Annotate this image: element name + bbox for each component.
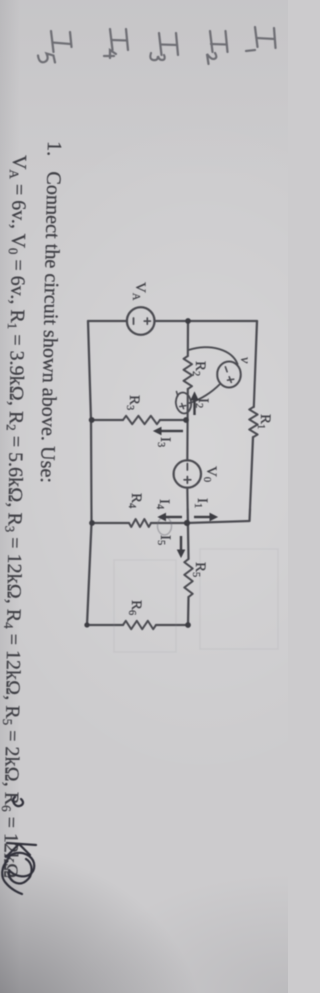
svg-text:VA = 6v., V0 = 6v., R1 = 3.9kΩ: VA = 6v., V0 = 6v., R1 = 3.9kΩ, R2 = 5.6… <box>0 155 30 879</box>
svg-text:R3: R3 <box>124 395 142 410</box>
svg-text:I1: I1 <box>192 498 210 508</box>
svg-text:VA: VA <box>130 282 148 301</box>
svg-text:I2: I2 <box>193 398 211 408</box>
svg-text:R5: R5 <box>190 562 208 577</box>
svg-text:1. Connect the circuit shown: 1. Connect the circuit shown above. Use: <box>36 141 65 483</box>
svg-text:R1: R1 <box>255 414 273 429</box>
svg-text:I5: I5 <box>155 535 173 545</box>
svg-text:R4: R4 <box>126 493 144 509</box>
svg-text:v: v <box>237 357 252 364</box>
svg-text:I3: I3 <box>155 437 173 447</box>
svg-text:R2: R2 <box>190 361 208 376</box>
svg-text:R6: R6 <box>126 600 144 615</box>
svg-text:I4: I4 <box>154 499 172 510</box>
svg-text:V0: V0 <box>201 466 219 482</box>
